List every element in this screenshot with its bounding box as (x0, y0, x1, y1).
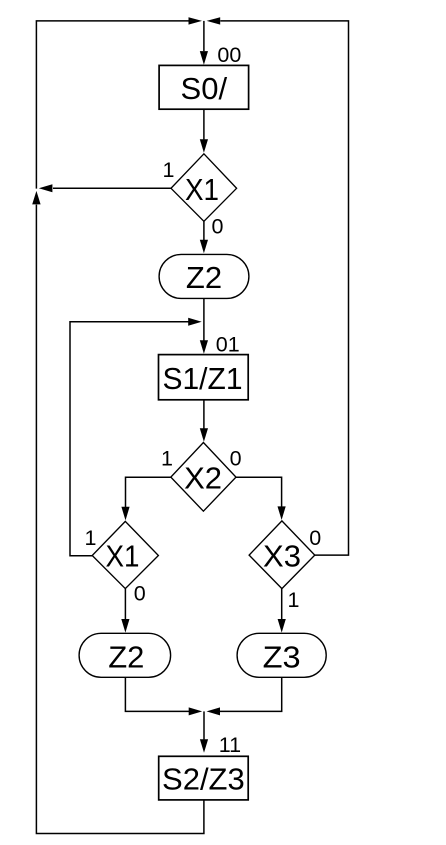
svg-text:0: 0 (309, 526, 321, 550)
arrowhead: down into S0 (200, 51, 208, 65)
decision diamond X2 (171, 443, 236, 512)
arrowhead: down into X2 (200, 428, 208, 442)
svg-text:1: 1 (288, 588, 300, 612)
arrowhead: left into merge junction (207, 707, 221, 715)
arrowhead: down into Z2 (200, 240, 208, 254)
wire: S1/Z1 to X2 (203, 400, 205, 429)
output oval Z3 (237, 633, 326, 677)
output oval Z2 (upper) (159, 254, 249, 298)
svg-text:Z3: Z3 (263, 640, 301, 675)
output oval Z2 (lower) (79, 633, 171, 677)
wire: Z3 down and left into merge junction (220, 677, 282, 711)
svg-text:X2: X2 (184, 460, 222, 495)
wire: Z2 down through junction into S1/Z1 (203, 298, 205, 340)
arrowhead: into top junction from left (189, 17, 203, 24)
wire: loop from X1 (lower) true branch left, up and right into S1 entry junction (70, 322, 189, 556)
wire: shaft from top junction down to S0 (203, 21, 205, 51)
wire: S0 to X1 (203, 109, 205, 139)
svg-text:X1: X1 (185, 172, 219, 207)
arrowhead: down into X1 (200, 139, 208, 153)
arrowhead: down into X3 (278, 506, 286, 520)
svg-text:1: 1 (163, 158, 175, 182)
arrowhead: down into Z3 (278, 619, 286, 633)
state box S2/Z3 (159, 756, 249, 800)
svg-text:X3: X3 (263, 539, 301, 574)
arrowhead: left into left loop junction (39, 184, 53, 192)
wire: X1 false branch down to Z2 (203, 221, 205, 240)
wire: bottom loop from S2/Z3 down, left and up the left edge (36, 205, 204, 834)
state box S1/Z1 (159, 355, 249, 400)
arrowhead: right into S1 entry junction (188, 318, 202, 326)
svg-text:0: 0 (134, 582, 146, 606)
svg-text:01: 01 (216, 333, 240, 357)
wire: X2 false branch right and down to X3 (236, 477, 282, 506)
svg-text:S1/Z1: S1/Z1 (163, 361, 243, 396)
wire: X3 true branch down to Z3 (281, 589, 283, 620)
svg-text:S0/: S0/ (181, 71, 228, 106)
wire: left/top feedback loop into S0 entry junction (36, 21, 188, 189)
decision diamond X3 (249, 521, 315, 589)
svg-text:1: 1 (85, 526, 97, 550)
svg-text:11: 11 (219, 733, 241, 757)
svg-text:X1: X1 (106, 539, 140, 574)
wire: X1 true branch going left (53, 187, 171, 189)
arrowhead: up into left loop junction from bottom loop (32, 191, 40, 205)
arrowhead: down into S1/Z1 (200, 340, 208, 354)
svg-text:Z2: Z2 (186, 260, 222, 295)
wire: X2 true branch left and down to X1 (lower) (126, 477, 171, 507)
arrowhead: down into S2/Z3 (200, 739, 208, 753)
arrowhead: right into merge junction (189, 707, 203, 715)
svg-text:1: 1 (161, 447, 173, 471)
svg-text:00: 00 (217, 43, 241, 67)
svg-text:0: 0 (230, 447, 242, 471)
wire: X1 (lower) false branch down to Z2 (lower) (124, 589, 126, 620)
arrowhead: down into X1 (lower) (121, 507, 129, 521)
svg-text:0: 0 (212, 214, 224, 238)
svg-text:Z2: Z2 (108, 640, 144, 675)
decision diamond X1 (lower) (92, 521, 158, 588)
svg-text:S2/Z3: S2/Z3 (162, 761, 245, 796)
state box S0 (159, 65, 249, 109)
arrowhead: into top junction from right (207, 17, 221, 24)
decision diamond X1 (upper) (171, 154, 237, 222)
wire: Z2 (lower) down and right into merge junction (125, 677, 189, 711)
wire: right feedback loop from X3 right corner up and across top (220, 21, 348, 555)
wire: merge junction down to S2/Z3 (203, 711, 205, 739)
arrowhead: down into Z2 (lower) (121, 619, 129, 633)
